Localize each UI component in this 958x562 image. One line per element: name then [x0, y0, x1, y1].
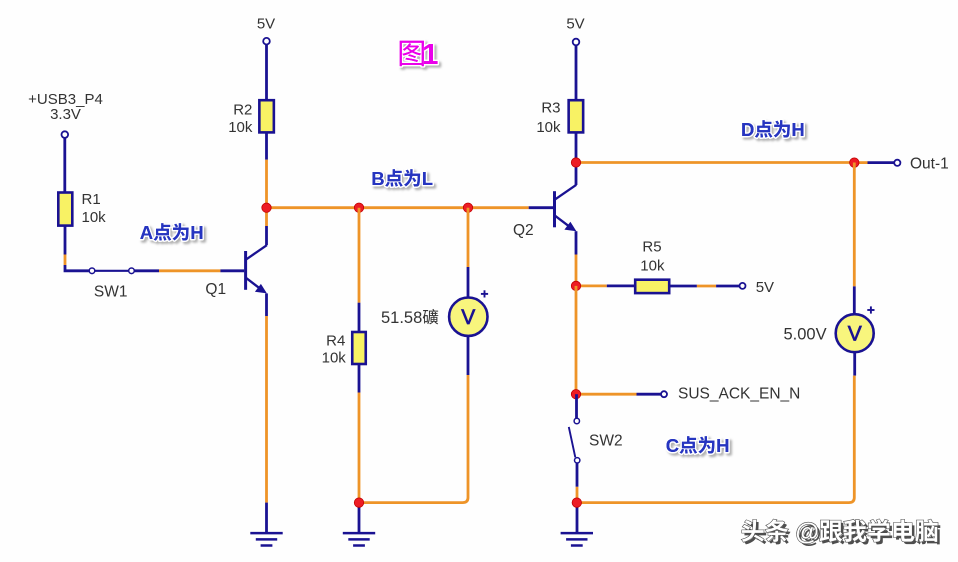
- label R3 10k: [536, 99, 561, 135]
- wire: [575, 394, 578, 418]
- svg-text:D: D: [741, 119, 754, 140]
- label SW1: [94, 283, 128, 300]
- wire: [576, 284, 607, 287]
- wire: [575, 45, 578, 100]
- wire: [134, 269, 159, 272]
- wire: [467, 208, 470, 267]
- wire: [577, 376, 855, 503]
- svg-text:5.00V: 5.00V: [784, 326, 827, 344]
- label Out-1: [910, 156, 949, 173]
- wire: [669, 285, 697, 288]
- wire: [716, 285, 739, 288]
- resistor R4: [352, 332, 366, 364]
- svg-text:H: H: [190, 222, 203, 243]
- wire: [853, 286, 856, 314]
- wire: [575, 132, 578, 185]
- switch SW1: [89, 268, 134, 274]
- wire: [576, 503, 579, 533]
- switch SW2: [569, 418, 580, 463]
- svg-text:V: V: [848, 323, 862, 346]
- svg-text:Out-1: Out-1: [910, 156, 949, 173]
- svg-text:L: L: [422, 168, 433, 189]
- ground: [561, 533, 593, 545]
- wire: [265, 160, 268, 208]
- wire: [358, 208, 361, 303]
- ground: [250, 533, 282, 545]
- wire: [607, 284, 635, 287]
- svg-text:Q2: Q2: [513, 222, 534, 239]
- wire: [265, 293, 268, 316]
- wire: [359, 206, 468, 209]
- wire: [576, 463, 579, 487]
- junction: [571, 281, 580, 290]
- terminal 5V: [740, 283, 746, 289]
- junction: [463, 203, 472, 212]
- wire: [65, 265, 89, 271]
- resistor R3: [569, 100, 584, 132]
- wire: [576, 393, 637, 396]
- svg-text:SUS_ACK_EN_N: SUS_ACK_EN_N: [678, 385, 800, 402]
- transistor Q1: [246, 245, 267, 293]
- watermark 头条 @跟我学电脑: [742, 519, 941, 549]
- wire: [697, 285, 716, 288]
- svg-text:R4: R4: [326, 332, 345, 349]
- wire: [265, 45, 268, 101]
- wire: [853, 352, 856, 375]
- svg-text:A: A: [140, 222, 153, 243]
- svg-text:V: V: [461, 306, 475, 329]
- svg-text:51.58: 51.58: [381, 309, 422, 327]
- wire: [358, 303, 361, 332]
- label Q2: [513, 222, 534, 239]
- svg-text:5V: 5V: [257, 16, 275, 33]
- net label +USB3_P4 3.3V: [28, 91, 103, 123]
- label R4 10k: [322, 332, 347, 366]
- label 5.00V reading: [784, 326, 827, 344]
- power label 5V: [756, 279, 774, 296]
- svg-text:B: B: [371, 168, 384, 189]
- svg-text:R5: R5: [642, 239, 661, 256]
- terminal 5V: [263, 38, 270, 45]
- power label 5V: [566, 16, 584, 33]
- wire: [220, 269, 244, 272]
- wire: [265, 132, 268, 159]
- wire: [64, 255, 67, 266]
- svg-text:R2: R2: [233, 101, 252, 118]
- polarity + V2: [867, 306, 874, 313]
- svg-text:10k: 10k: [640, 258, 665, 275]
- svg-text:10k: 10k: [82, 209, 107, 226]
- node D label D点为H: [741, 119, 805, 140]
- label R1 10k: [82, 191, 107, 226]
- svg-text:10k: 10k: [228, 119, 253, 136]
- junction node C: [571, 390, 580, 399]
- wire: [265, 316, 268, 503]
- svg-text:3.3V: 3.3V: [50, 106, 81, 123]
- wire: [358, 503, 361, 533]
- node A label A点为H: [140, 222, 204, 243]
- wire: [576, 161, 854, 164]
- svg-text:H: H: [791, 119, 804, 140]
- junction: [850, 158, 859, 167]
- wire: [854, 161, 867, 164]
- terminal Out-1: [894, 160, 900, 166]
- voltmeter V2: [836, 314, 874, 352]
- svg-text:1: 1: [422, 39, 438, 71]
- polarity + V1: [481, 290, 488, 297]
- svg-text:R1: R1: [82, 191, 101, 208]
- svg-text:SW1: SW1: [94, 283, 128, 300]
- wire: [265, 208, 268, 226]
- wire: [358, 393, 361, 503]
- wire: [265, 226, 268, 245]
- wire: [575, 286, 578, 394]
- svg-text:5V: 5V: [756, 279, 774, 296]
- wire: [529, 206, 554, 209]
- wire: [64, 226, 67, 255]
- svg-text:10k: 10k: [536, 119, 561, 136]
- svg-text:H: H: [716, 435, 729, 456]
- title 图1: [400, 39, 439, 71]
- wire: [267, 206, 360, 209]
- wire: [868, 161, 895, 164]
- terminal 5V: [573, 39, 580, 46]
- svg-text:10k: 10k: [322, 349, 347, 366]
- wire: [358, 364, 361, 393]
- resistor R1: [58, 193, 72, 226]
- resistor R5: [635, 280, 669, 293]
- svg-text:@: @: [796, 519, 819, 546]
- wire: [576, 487, 579, 503]
- node B label B点为L: [371, 168, 433, 189]
- wire: [575, 231, 578, 254]
- power label 5V: [257, 16, 275, 33]
- resistor R2: [259, 100, 274, 132]
- wire: [467, 336, 470, 375]
- wire: [853, 163, 856, 287]
- junction: [572, 498, 581, 507]
- junction node D: [571, 158, 580, 167]
- label SW2: [589, 433, 623, 450]
- transistor Q2: [555, 185, 577, 231]
- wire: [467, 267, 470, 298]
- junction: [354, 498, 363, 507]
- ground: [343, 533, 375, 545]
- junction node B: [262, 203, 271, 212]
- wire: [159, 269, 220, 272]
- svg-text:Q1: Q1: [205, 281, 226, 298]
- voltmeter V1: [449, 298, 487, 336]
- svg-text:SW2: SW2: [589, 433, 623, 450]
- svg-text:C: C: [666, 435, 679, 456]
- terminal +USB3_P4: [62, 131, 69, 138]
- wire: [468, 206, 529, 209]
- wire: [575, 255, 578, 286]
- label 51.58mV reading: [381, 309, 438, 327]
- wire: [265, 503, 268, 533]
- junction: [354, 203, 363, 212]
- label R2 10k: [228, 101, 253, 136]
- terminal SUS_ACK_EN_N: [661, 391, 667, 397]
- net label SUS_ACK_EN_N: [678, 385, 800, 402]
- svg-text:R3: R3: [541, 99, 560, 116]
- wire: [63, 138, 66, 193]
- wire: [359, 375, 468, 503]
- node C label C点为H: [666, 435, 730, 456]
- label Q1: [205, 281, 226, 298]
- label R5 10k: [640, 239, 665, 275]
- wire: [637, 393, 662, 396]
- svg-text:5V: 5V: [566, 16, 584, 33]
